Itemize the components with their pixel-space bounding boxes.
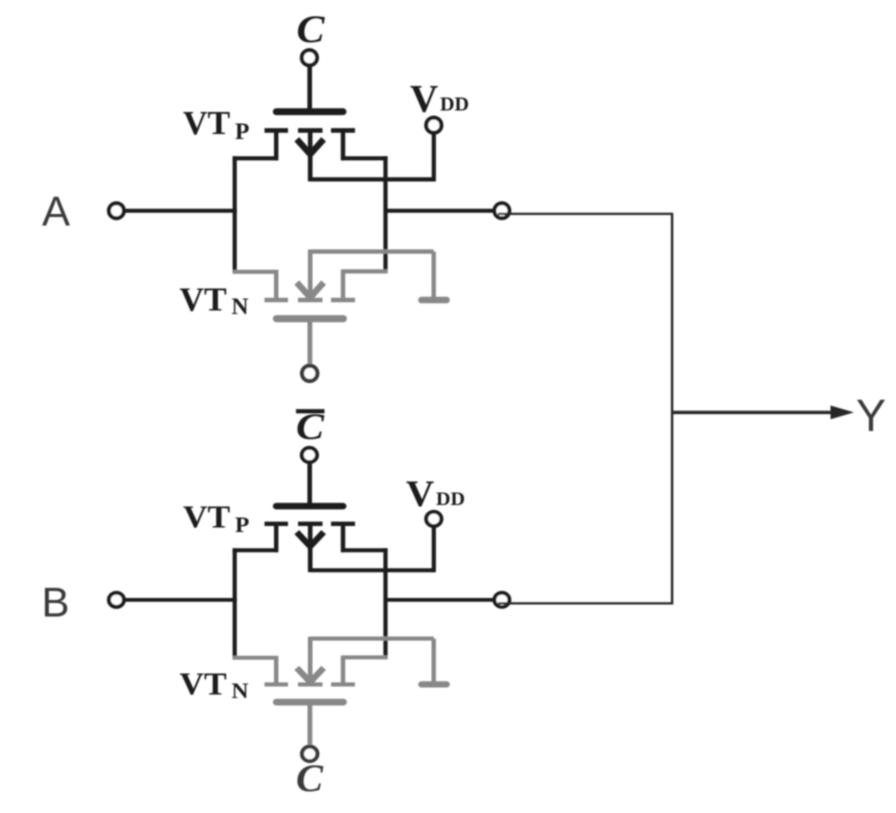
- wire: NMOS source to left rail (cell B (input B, controls C-bar / C)): [233, 656, 278, 660]
- svg-text:C: C: [296, 756, 323, 800]
- transistor VT_N (cell B (input B, controls C-bar / C)): body arrowhead: [297, 668, 324, 682]
- svg-text:A: A: [42, 187, 70, 234]
- svg-text:V: V: [410, 77, 438, 120]
- transistor VT_N (cell A (input A, controls C / C-bar)): gate bar: [277, 315, 344, 322]
- wire: NMOS drain to right rail (cell A (input A, controls C / C-bar)): [341, 269, 388, 273]
- svg-text:DD: DD: [440, 94, 469, 116]
- wire: NMOS gate lead (cell A (input A, controls C / C-bar)): [307, 321, 312, 364]
- output arrowhead: [831, 406, 855, 420]
- svg-text:VT: VT: [179, 667, 226, 702]
- wire: PMOS drain to right rail (cell A (input A, controls C / C-bar)): [341, 156, 388, 160]
- wire: PMOS gate lead (cell A (input A, controls C / C-bar)): [307, 66, 312, 110]
- transistor VT_P (cell A (input A, controls C / C-bar)): gate bar: [276, 108, 343, 115]
- transistor VT_P (cell B (input B, controls C-bar / C)): body arrow shaft: [308, 524, 313, 572]
- transistor VT_P (cell B (input B, controls C-bar / C)): channel segments: [265, 522, 356, 527]
- wire: NMOS body stub vertical (cell B (input B, controls C-bar / C)): [432, 639, 436, 682]
- transistor VT_N (cell B (input B, controls C-bar / C)): body arrow shaft: [308, 637, 313, 683]
- terminal circle: input (cell B (input B, controls C-bar / C)): [109, 593, 124, 607]
- wire: PMOS source to left rail (cell B (input B, controls C-bar / C)): [233, 548, 278, 552]
- terminal circle: PMOS gate control (cell A (input A, controls C / C-bar)): [302, 50, 317, 65]
- wire: input (cell B (input B, controls C-bar / C)): [126, 598, 237, 602]
- terminal circle: NMOS gate control (cell A (input A, controls C / C-bar)): [302, 366, 317, 381]
- transistor VT_N (cell A (input A, controls C / C-bar)): source stub: [274, 270, 278, 302]
- terminal circle: output (cell B (input B, controls C-bar / C)): [494, 593, 509, 607]
- transistor VT_P (cell A (input A, controls C / C-bar)): body arrow shaft: [308, 131, 313, 181]
- svg-text:N: N: [232, 294, 249, 320]
- transistor VT_N (cell A (input A, controls C / C-bar)): body arrow shaft: [308, 250, 313, 299]
- transmission gate cell A (input A, controls C / C-bar): [109, 8, 510, 381]
- transistor VT_N (cell A (input A, controls C / C-bar)): drain stub: [341, 270, 345, 302]
- transistor VT_N (cell B (input B, controls C-bar / C)): drain stub: [341, 656, 345, 686]
- transistor VT_P (cell A (input A, controls C / C-bar)): drain stub: [341, 129, 345, 161]
- wire: NMOS body rail (cell B (input B, controls C-bar / C)): [310, 636, 434, 640]
- transmission gate cell B (input B, controls C-bar / C): [109, 407, 510, 800]
- wire: PMOS drain to right rail (cell B (input B, controls C-bar / C)): [341, 548, 388, 552]
- transistor VT_N (cell B (input B, controls C-bar / C)): source stub: [274, 656, 278, 686]
- transistor VT_N (cell B (input B, controls C-bar / C)): channel segments: [265, 682, 356, 686]
- wire: VDD lead (cell B (input B, controls C-bar / C)): [432, 526, 436, 572]
- transistor VT_P (cell A (input A, controls C / C-bar)): channel segments: [265, 128, 356, 133]
- wire: output bus vertical: [671, 213, 673, 604]
- wire: right rail vertical (cell A (input A, controls C / C-bar)): [383, 156, 387, 273]
- wire: output (cell B (input B, controls C-bar / C)): [386, 598, 494, 602]
- transistor VT_N (cell A (input A, controls C / C-bar)): channel segments: [265, 298, 356, 302]
- wire: left rail vertical (cell B (input B, controls C-bar / C)): [233, 548, 237, 657]
- transistor VT_N (cell A (input A, controls C / C-bar)): body arrowhead: [297, 283, 324, 298]
- wire: cell B output to bus: [498, 602, 673, 604]
- wire: VDD lead (cell A (input A, controls C / C-bar)): [432, 133, 436, 182]
- wire: input (cell A (input A, controls C / C-bar)): [126, 209, 237, 213]
- svg-text:P: P: [235, 119, 249, 145]
- wire: NMOS drain to right rail (cell B (input B, controls C-bar / C)): [341, 655, 388, 659]
- wire: output (cell A (input A, controls C / C-bar)): [386, 209, 494, 213]
- terminal circle: VDD (cell A (input A, controls C / C-bar)): [426, 118, 441, 133]
- wire: right rail vertical (cell B (input B, controls C-bar / C)): [383, 548, 387, 659]
- wire: NMOS body stub vertical (cell A (input A, controls C / C-bar)): [432, 252, 436, 297]
- transistor VT_P (cell B (input B, controls C-bar / C)): body arrowhead: [297, 532, 324, 546]
- svg-text:B: B: [42, 578, 70, 625]
- wire: NMOS gate lead (cell B (input B, controls C-bar / C)): [307, 704, 312, 744]
- wire: PMOS body to VDD (cell B (input B, controls C-bar / C)): [310, 568, 434, 572]
- transistor VT_P (cell A (input A, controls C / C-bar)): source stub: [274, 129, 278, 161]
- wire: PMOS source to left rail (cell A (input A, controls C / C-bar)): [233, 156, 278, 160]
- svg-text:Y: Y: [856, 390, 886, 441]
- svg-text:C: C: [297, 8, 326, 51]
- label C-bar (control, cell B (input B, controls C-bar / C)): [296, 407, 325, 448]
- svg-text:P: P: [235, 513, 249, 537]
- wire: left rail vertical (cell A (input A, controls C / C-bar)): [233, 156, 237, 272]
- svg-text:N: N: [231, 678, 248, 702]
- terminal circle: input (cell A (input A, controls C / C-bar)): [109, 203, 124, 218]
- terminal circle: VDD (cell B (input B, controls C-bar / C)): [426, 512, 441, 526]
- wire: cell A output to bus: [498, 213, 673, 215]
- transistor VT_N (cell B (input B, controls C-bar / C)): gate bar: [277, 699, 344, 706]
- NMOS body terminal bar (cell A (input A, controls C / C-bar)): [422, 297, 447, 304]
- wire: output arrow shaft to Y: [671, 411, 845, 414]
- wire: NMOS source to left rail (cell A (input A, controls C / C-bar)): [233, 270, 278, 274]
- svg-text:VT: VT: [183, 105, 231, 142]
- terminal circle: PMOS gate control (cell B (input B, controls C-bar / C)): [302, 448, 317, 462]
- wire: PMOS body to VDD (cell A (input A, controls C / C-bar)): [310, 177, 434, 181]
- wire: PMOS gate lead (cell B (input B, controls C-bar / C)): [307, 463, 312, 505]
- terminal circle: output (cell A (input A, controls C / C-bar)): [494, 203, 509, 218]
- transistor VT_P (cell B (input B, controls C-bar / C)): gate bar: [276, 503, 343, 510]
- transistor VT_P (cell A (input A, controls C / C-bar)): body arrowhead: [297, 139, 324, 154]
- NMOS body terminal bar (cell B (input B, controls C-bar / C)): [422, 681, 447, 688]
- svg-text:VT: VT: [183, 500, 230, 535]
- svg-text:V: V: [406, 474, 434, 515]
- transistor VT_P (cell B (input B, controls C-bar / C)): source stub: [274, 522, 278, 552]
- wire: NMOS body rail (cell A (input A, controls C / C-bar)): [310, 249, 434, 253]
- terminal circle: NMOS gate control (cell B (input B, controls C-bar / C)): [302, 747, 317, 762]
- svg-text:DD: DD: [436, 490, 465, 510]
- svg-text:VT: VT: [180, 282, 228, 319]
- transistor VT_P (cell B (input B, controls C-bar / C)): drain stub: [341, 522, 345, 552]
